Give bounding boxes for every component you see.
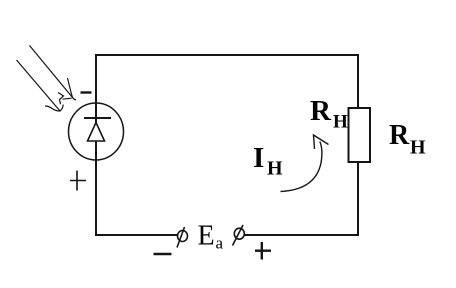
svg-text:H: H [267,158,283,180]
svg-text:I: I [253,142,264,174]
plus sign at diode anode [70,171,86,191]
wire right vertical upper [357,55,359,108]
svg-text:H: H [410,137,426,159]
svg-text:R: R [389,120,410,151]
light arrow 1 shaft [30,46,73,98]
terminal phi left [177,227,188,248]
photodiode D1 circle [69,103,124,160]
svg-text:H: H [333,112,348,133]
current arrow IH arc [281,142,322,192]
wire top horizontal [96,54,358,56]
wire left vertical upper [95,55,97,122]
minus sign at diode cathode [81,91,92,93]
photodiode D1 triangle [88,123,105,142]
light arrow 2 shaft [17,60,61,111]
svg-text:E: E [198,221,215,252]
photodiode D1 cathode bar [84,117,111,119]
current arrow IH head [314,135,329,149]
minus sign at Ea left [154,253,172,256]
resistor RH body [349,108,371,162]
light zigzag [58,93,64,105]
svg-text:a: a [216,234,224,253]
svg-text:R: R [310,95,332,127]
wire bottom right segment [245,234,358,236]
plus sign at Ea right [255,242,271,260]
light arrow 1 head [63,78,77,100]
wire right vertical lower [357,162,359,235]
light arrow 2 head [45,105,63,112]
wire bottom left segment [96,234,177,236]
wire left vertical lower [95,141,97,235]
terminal phi right [233,225,245,246]
